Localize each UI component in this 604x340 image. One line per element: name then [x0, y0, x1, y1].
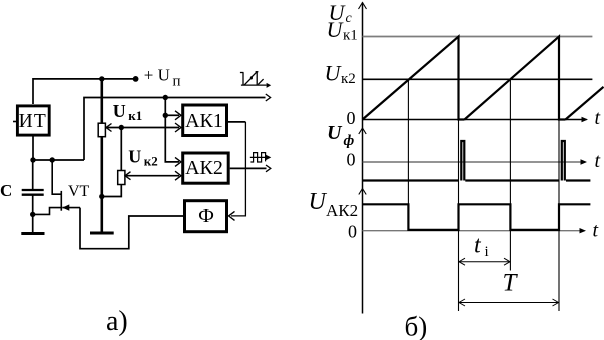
svg-text:U: U — [309, 189, 328, 215]
bus Up vertical lower — [101, 137, 104, 233]
svg-text:T: T — [503, 270, 519, 297]
ground capacitor — [21, 232, 44, 235]
bus Up vertical — [101, 79, 104, 123]
arrow into AK1 input1 — [175, 111, 181, 120]
svg-text:к1: к1 — [343, 28, 358, 44]
block IT (current source) — [17, 106, 49, 135]
svg-text:с: с — [346, 11, 353, 26]
svg-text:VT: VT — [68, 183, 90, 200]
arrow into AK1 input2 — [175, 123, 181, 132]
wire supply rail — [33, 79, 136, 104]
svg-text:АК2: АК2 — [185, 157, 223, 179]
wire node row — [33, 159, 84, 161]
arrow into F — [229, 211, 235, 220]
wire R1 wiper to AK1 — [106, 127, 179, 129]
axis t Uc — [363, 119, 587, 121]
svg-text:U: U — [327, 122, 343, 144]
svg-text:АК1: АК1 — [185, 110, 223, 132]
dropline reset1 — [458, 120, 460, 312]
arrow R2 wiper — [125, 172, 131, 180]
svg-text:U: U — [325, 61, 343, 86]
axis t Uak2 — [363, 230, 585, 232]
svg-text:0: 0 — [348, 222, 357, 242]
svg-text:t: t — [595, 107, 601, 129]
wire R2 wiper to AK2 — [125, 175, 179, 177]
svg-text:U: U — [128, 147, 141, 167]
svg-text:Ф: Ф — [198, 205, 214, 227]
svg-text:ИТ: ИТ — [19, 111, 47, 132]
block F shaper — [185, 201, 227, 232]
terminal +Up dot — [133, 76, 139, 82]
waveform Uf pulses — [363, 141, 591, 181]
node collector branch — [50, 157, 55, 162]
svg-text:C: C — [0, 181, 12, 200]
svg-text:i: i — [485, 244, 489, 260]
wire AK2 output — [230, 167, 267, 169]
transistor VT emitter arrow — [62, 204, 69, 210]
svg-text:АК2: АК2 — [326, 201, 358, 220]
arrow into AK2 input1 — [175, 157, 181, 166]
svg-text:а): а) — [106, 306, 128, 337]
svg-text:t: t — [595, 150, 601, 172]
arrow R1 wiper — [106, 124, 112, 132]
axis vertical — [362, 3, 364, 314]
svg-text:б): б) — [405, 312, 428, 340]
wire F output to emitter — [80, 208, 183, 249]
wire Uc riser — [84, 98, 266, 161]
arrow axis Uak2 — [359, 189, 366, 195]
capacitor C — [22, 189, 44, 191]
wire tap to R2 top — [120, 128, 122, 171]
resistor R2 potentiometer body — [118, 171, 125, 185]
wire AK1 output to F — [228, 121, 246, 123]
node wiper tap — [119, 125, 124, 130]
arrow into AK2 input2 — [175, 171, 181, 180]
arrow Uc output — [266, 94, 271, 101]
node Uc left — [30, 157, 35, 162]
node AK1 input branch — [163, 113, 168, 118]
svg-text:0: 0 — [347, 150, 356, 170]
dropline reset2 — [558, 120, 560, 312]
node R2 return — [99, 194, 104, 199]
dropline crossing2 — [509, 79, 511, 270]
op-amp AK1 block — [183, 105, 227, 136]
svg-text:п: п — [173, 74, 181, 90]
resistor R1 potentiometer body — [98, 123, 105, 137]
svg-text:0: 0 — [347, 108, 356, 128]
svg-text:к1: к1 — [128, 108, 142, 123]
svg-text:U: U — [113, 101, 126, 121]
wire branch to AK1 — [165, 114, 179, 116]
icon pulse output — [250, 153, 266, 162]
icon sawtooth output — [240, 72, 267, 85]
level line Uk2 — [363, 78, 593, 80]
wire IT bottom lead — [32, 137, 34, 161]
waveform Uak2 square — [363, 204, 591, 230]
wire R2 bottom return — [102, 185, 122, 197]
dimension ti — [459, 261, 511, 263]
dropline crossing1 — [407, 79, 409, 230]
node base — [30, 212, 35, 217]
dimension T — [459, 302, 560, 304]
svg-text:U: U — [327, 17, 345, 42]
svg-text:ф: ф — [344, 133, 355, 149]
svg-text:к2: к2 — [144, 154, 158, 169]
ground bus — [90, 232, 114, 235]
transistor VT — [33, 160, 80, 214]
arrow AK2 output — [266, 165, 271, 172]
svg-text:к2: к2 — [341, 71, 356, 87]
node Uc tap — [163, 95, 168, 100]
wire IT left tick — [13, 121, 16, 123]
node supply junction — [99, 76, 104, 81]
arrow axis Uf — [359, 128, 366, 134]
capacitor C wire top — [32, 160, 34, 190]
capacitor C wire bottom — [32, 195, 34, 233]
wire Uc to comparators — [165, 98, 179, 162]
svg-text:t: t — [593, 220, 599, 242]
svg-text:+ U: + U — [144, 66, 170, 85]
level line Uk1 — [363, 36, 593, 38]
op-amp AK2 block — [183, 153, 229, 183]
arrow axis Uc — [359, 3, 367, 10]
axis t Uf — [363, 161, 586, 163]
waveform sawtooth Uc — [363, 37, 604, 120]
